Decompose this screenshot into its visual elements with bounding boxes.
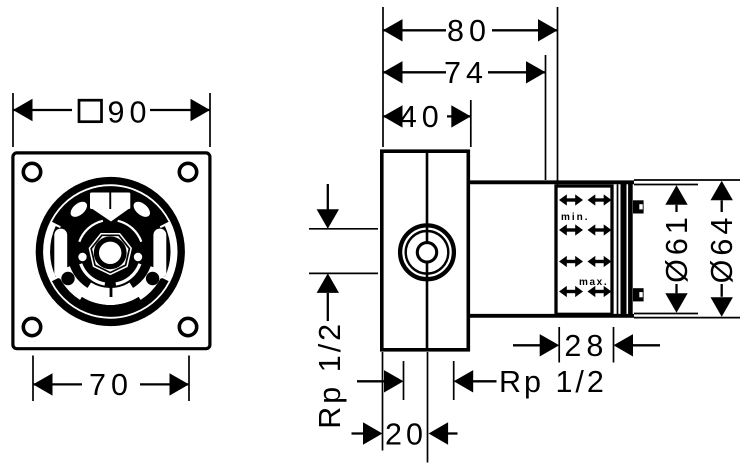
dimension Ø64 bbox=[634, 180, 740, 318]
svg-text:28: 28 bbox=[564, 329, 608, 363]
dimension 40 bbox=[383, 100, 471, 134]
dimension 28 bbox=[513, 327, 660, 363]
sleeve bottom edge bbox=[469, 314, 635, 318]
svg-text:min.: min. bbox=[561, 212, 590, 223]
spindle circles bbox=[400, 225, 454, 279]
svg-text:74: 74 bbox=[444, 56, 488, 90]
extension line left (body) bbox=[382, 7, 384, 147]
svg-text:80: 80 bbox=[447, 14, 491, 48]
sleeve top edge bbox=[469, 180, 635, 184]
valve cartridge front view bbox=[42, 184, 178, 320]
dimension Rp 1/2 (side port) bbox=[309, 184, 378, 429]
block inner line bbox=[617, 184, 619, 316]
svg-text:Rp 1/2: Rp 1/2 bbox=[499, 365, 607, 399]
svg-text:90: 90 bbox=[108, 96, 152, 130]
svg-text:Ø64: Ø64 bbox=[705, 214, 739, 284]
adjustment block outline bbox=[556, 186, 612, 314]
extension line 80 bbox=[557, 7, 559, 185]
dimension 70 (hole spacing) bbox=[33, 356, 189, 403]
extension line 74 bbox=[545, 55, 547, 180]
svg-text:max.: max. bbox=[579, 277, 608, 288]
screw hole top-left bbox=[23, 163, 40, 180]
svg-text:Ø61: Ø61 bbox=[660, 213, 694, 283]
svg-text:20: 20 bbox=[385, 417, 427, 451]
valve body (side view) bbox=[382, 151, 469, 350]
screw hole bottom-left bbox=[23, 318, 40, 335]
dimension 20 bbox=[352, 352, 458, 463]
dimension □90 (plate width) bbox=[13, 93, 210, 147]
dimension 74 bbox=[383, 56, 546, 90]
screw hole bottom-right bbox=[179, 318, 196, 335]
end flange bar 1 bbox=[621, 183, 627, 318]
svg-text:40: 40 bbox=[400, 100, 444, 134]
end flange bar 2 bbox=[628, 183, 633, 318]
retaining clip bottom bbox=[633, 288, 644, 301]
dimension 80 bbox=[383, 14, 558, 48]
extension line 40 bbox=[470, 100, 472, 147]
dimension Ø61 bbox=[634, 185, 698, 314]
svg-text:Rp 1/2: Rp 1/2 bbox=[313, 321, 347, 429]
retaining clip top bbox=[633, 200, 644, 213]
adjustment arrows bbox=[559, 194, 612, 297]
screw hole top-right bbox=[179, 163, 196, 180]
svg-text:70: 70 bbox=[89, 368, 133, 402]
dimension Rp 1/2 (bottom port) bbox=[357, 361, 607, 400]
front plate (90x90 escutcheon) bbox=[13, 153, 210, 349]
body parting line bbox=[426, 153, 429, 350]
